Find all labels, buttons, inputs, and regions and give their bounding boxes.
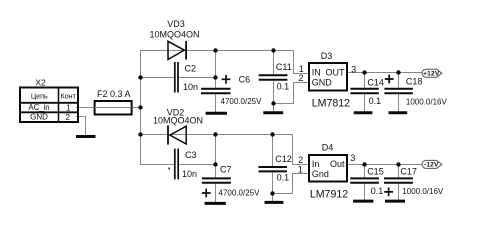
ground (C7) [205,202,226,205]
wire: top rail left (to VD3 anode) [140,50,186,52]
svg-text:1000.0/16V: 1000.0/16V [406,97,448,106]
node: VD2 rail left [138,132,142,136]
connector X2 table [20,78,78,123]
wire: bottom rail right (VD2 to D4 pin2) [186,135,309,165]
svg-text:Gnd: Gnd [312,169,329,179]
capacitor C12 [259,154,292,183]
diode VD3 [149,19,199,60]
node: VD3 cathode [213,48,217,52]
ground (C17) [385,200,405,203]
capacitor C3 [169,149,197,180]
capacitor C15 [350,167,384,196]
ground (C11) [263,111,283,114]
capacitor C7 (electrolytic) [202,165,260,198]
svg-text:10MQO4ON: 10MQO4ON [149,30,199,40]
wire: C2 branch right [178,77,216,79]
node: C11 bottom [271,101,275,105]
ground (C12) [265,201,284,204]
svg-text:0.1: 0.1 [371,186,384,196]
node: OUT at C14 [362,70,366,74]
svg-text:10n: 10n [183,82,198,92]
svg-text:Конт: Конт [60,92,76,101]
wire: C11 bottom node to D3 GND pin2 [274,83,310,104]
svg-text:GND: GND [30,113,48,122]
wire: VD2 node down to C3 node [215,135,217,165]
regulator U D3 LM7812 [298,51,356,110]
svg-text:C6: C6 [239,74,251,84]
wire: C12 top lead [272,135,274,167]
node: top rail at C11 [271,48,275,52]
capacitor C17 (electrolytic) [384,167,444,197]
wire: VD3 cathode node down to C2 node [215,50,217,78]
svg-text:4700.0/25V: 4700.0/25V [221,97,263,106]
wire: C18 leads [398,73,400,88]
node: VD2 cathode rail [213,132,217,136]
ground (C15) [353,200,373,203]
svg-text:GND: GND [312,78,333,88]
wire: C3 branch left [140,164,175,166]
svg-text:In: In [312,159,320,169]
svg-text:C14: C14 [367,78,384,88]
wire: table pin1 to fuse [76,107,95,109]
wire: C6 top lead [215,78,217,88]
svg-text:-12V: -12V [424,162,439,169]
svg-text:LM7912: LM7912 [310,188,348,200]
svg-text:1000.0/16V: 1000.0/16V [402,187,444,196]
wire: left vertical rail [140,50,142,165]
fuse F2 [95,89,132,115]
capacitor C11 [259,62,292,92]
svg-text:0.1: 0.1 [369,96,382,106]
svg-text:OUT: OUT [326,67,346,77]
node: fuse output [138,105,142,109]
ground (C14) [354,111,373,114]
node: C3/C7 junction [213,162,217,166]
node: Out at C17 [396,162,400,166]
wire: C7 bottom lead [215,184,217,202]
ground (C6) [206,112,227,115]
wire: C2 branch left [140,77,175,79]
svg-text:IN: IN [312,67,321,77]
svg-text:1: 1 [66,103,71,112]
capacitor C6 (electrolytic) [201,74,262,106]
svg-text:C2: C2 [185,64,197,74]
svg-text:X2: X2 [35,78,46,88]
svg-text:LM7812: LM7812 [312,98,350,110]
svg-text:C12: C12 [275,154,292,164]
node: Out at C15 [362,162,366,166]
wire: table pin2 to ground [76,117,86,136]
wire: C12 bottom node to D4 Gnd pin1 [273,174,310,194]
svg-text:C17: C17 [400,167,417,177]
svg-text:0.1: 0.1 [277,173,290,183]
svg-text:2: 2 [65,113,70,122]
svg-text:AC_in: AC_in [28,103,49,112]
node: C12 bottom [270,191,274,195]
svg-text:10n: 10n [182,169,197,179]
wire: C12 bottom lead [272,172,274,201]
capacitor C14 [350,78,384,106]
svg-text:D3: D3 [321,51,333,61]
svg-text:2: 2 [298,155,303,165]
node: C2/C6 junction [213,75,217,79]
node: OUT at C18 [396,70,400,74]
regulator U D4 LM7912 [298,143,355,201]
net flag -12V [422,160,442,168]
svg-text:Цепь: Цепь [31,92,48,101]
net flag +12V [422,69,442,77]
svg-text:10MQO4ON: 10MQO4ON [153,115,203,125]
wire: C3 branch right [178,164,216,166]
ground (C18) [389,111,408,114]
svg-text:C18: C18 [406,77,423,87]
wire: C17 leads [398,165,400,178]
diode VD2 [153,108,203,145]
svg-text:+12V: +12V [423,70,440,77]
svg-text:C7: C7 [220,165,232,175]
wire: fuse to left rail [132,107,142,109]
wire: top rail right (VD3 cathode to D3 pin1) [186,51,309,74]
svg-text:3: 3 [350,153,355,163]
svg-text:D4: D4 [322,143,334,153]
wire: D3 OUT rail to +12V flag [347,72,422,74]
wire: C7 top lead [215,165,217,178]
svg-text:C3: C3 [185,150,197,160]
wire: C14 leads [364,73,366,88]
svg-text:VD3: VD3 [167,19,185,29]
svg-text:1: 1 [298,164,303,174]
capacitor C18 (electrolytic) [384,75,447,107]
wire: C11 bottom lead to ground [273,81,275,112]
svg-text:4700.0/25V: 4700.0/25V [219,188,261,197]
svg-text:0.1: 0.1 [277,82,290,92]
svg-text:2: 2 [298,73,303,83]
svg-text:C15: C15 [367,167,384,177]
svg-text:C11: C11 [276,62,292,72]
junction node dots [138,48,400,195]
wire: C15 leads [364,165,366,178]
ground (X2 pin2) [76,135,96,138]
wire: bottom rail left (to VD2) [140,134,186,136]
capacitor C2 [175,62,198,93]
node: C2 left [138,75,142,79]
svg-text:Out: Out [330,159,345,169]
wire: C11 top lead [273,50,275,74]
svg-text:3: 3 [351,64,356,74]
node: bottom rail at C12 [270,132,274,136]
wire: C6 bottom lead [215,94,217,112]
svg-text:F2 0.3 A: F2 0.3 A [97,89,131,99]
wire: D4 Out rail to -12V flag [347,164,422,166]
